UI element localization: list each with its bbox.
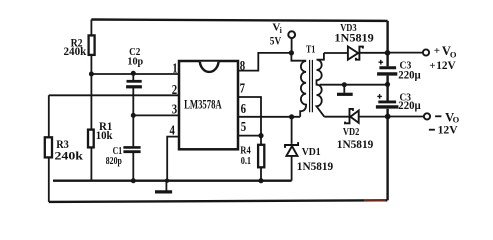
svg-text:6: 6 [241,102,246,117]
svg-text:2: 2 [172,83,177,98]
svg-text:10k: 10k [96,130,113,142]
svg-text:1N5819: 1N5819 [334,31,373,45]
svg-text:220µ: 220µ [398,100,421,112]
svg-text:5: 5 [241,120,246,135]
svg-text:+: + [434,45,440,57]
svg-text:4: 4 [170,124,175,139]
svg-text:VD1: VD1 [302,146,321,158]
svg-text:12V: 12V [438,123,458,137]
svg-text:240k: 240k [55,149,84,163]
svg-text:1N5819: 1N5819 [297,159,333,173]
svg-text:7: 7 [240,82,245,97]
svg-text:5V: 5V [270,34,282,48]
svg-text:+: + [429,60,435,72]
svg-text:820p: 820p [106,155,122,167]
svg-text:1N5819: 1N5819 [337,137,374,151]
svg-text:LM3578A: LM3578A [184,98,222,112]
svg-text:T1: T1 [306,43,315,55]
svg-text:1: 1 [172,62,177,77]
svg-text:3: 3 [172,103,177,118]
svg-text:10p: 10p [127,57,143,68]
svg-text:0.1: 0.1 [241,155,251,167]
svg-text:220µ: 220µ [398,70,421,82]
svg-text:12V: 12V [436,58,456,72]
svg-text:8: 8 [240,59,245,74]
svg-text:240k: 240k [64,44,87,58]
